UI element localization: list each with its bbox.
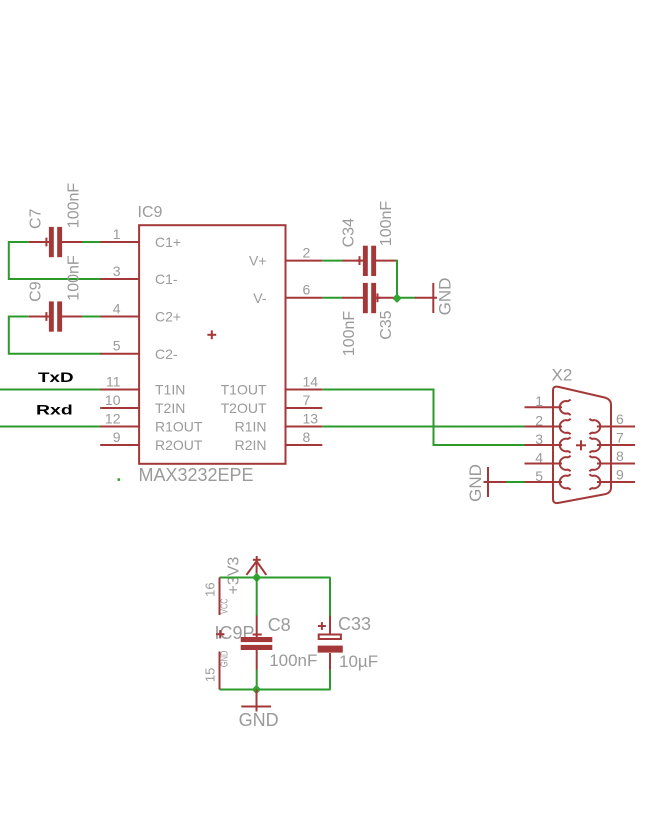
op-amp U1 : IC9 MAX3232EPE box bbox=[139, 225, 285, 464]
pin 4 C2+ bbox=[100, 300, 181, 324]
svg-text:100nF: 100nF bbox=[66, 183, 83, 229]
pin X2-7 bbox=[589, 430, 635, 453]
svg-text:R1OUT: R1OUT bbox=[155, 419, 203, 435]
op-amp U1 power gate IC9P pin 16 VCC bbox=[203, 578, 231, 616]
svg-text:TxD: TxD bbox=[38, 369, 74, 385]
pin 9 R2OUT bbox=[100, 429, 203, 453]
svg-text:10: 10 bbox=[105, 392, 121, 408]
pin X2-9 bbox=[589, 467, 635, 490]
pin 11 T1IN bbox=[100, 373, 185, 397]
svg-text:C8: C8 bbox=[268, 615, 291, 635]
svg-text:GND: GND bbox=[239, 710, 279, 730]
svg-text:R2OUT: R2OUT bbox=[155, 437, 203, 453]
wire pin 6 to C35 bbox=[322, 297, 342, 299]
svg-text:9: 9 bbox=[113, 429, 121, 445]
wire bottom GND rail bbox=[220, 689, 331, 691]
ground GND bottom bbox=[239, 690, 279, 731]
svg-text:4: 4 bbox=[535, 449, 543, 465]
pin 5 C2- bbox=[100, 338, 178, 362]
svg-text:8: 8 bbox=[616, 448, 624, 464]
node IC9 origin cross bbox=[207, 330, 216, 339]
pin X2-4 bbox=[525, 449, 571, 471]
pin X2-1 bbox=[525, 393, 571, 415]
node junction top rail bbox=[252, 573, 261, 582]
node X2 origin cross bbox=[576, 440, 586, 450]
svg-text:11: 11 bbox=[106, 373, 121, 389]
svg-text:100nF: 100nF bbox=[66, 255, 83, 301]
svg-text:6: 6 bbox=[303, 282, 311, 298]
wire TxD net to pin 11 bbox=[0, 389, 101, 391]
svg-text:5: 5 bbox=[113, 338, 121, 354]
pin X2-2 bbox=[525, 412, 571, 434]
svg-text:Rxd: Rxd bbox=[36, 402, 73, 418]
svg-text:1: 1 bbox=[113, 226, 121, 242]
pin 8 R2IN bbox=[235, 429, 323, 453]
svg-text:VCC: VCC bbox=[220, 598, 231, 614]
svg-text:IC9: IC9 bbox=[138, 204, 163, 221]
pin 1 C1+ bbox=[100, 226, 181, 250]
wire C7 right to pin 1 bbox=[82, 241, 101, 243]
pin X2-8 bbox=[589, 448, 635, 471]
pin 6 V- bbox=[253, 282, 322, 306]
svg-text:13: 13 bbox=[303, 410, 319, 426]
svg-text:GND: GND bbox=[436, 278, 455, 316]
wire C33 branch top bbox=[329, 578, 331, 617]
node junction bottom rail bbox=[252, 685, 261, 694]
pin 2 V+ bbox=[249, 244, 322, 268]
svg-text:GND: GND bbox=[220, 651, 231, 668]
svg-text:100nF: 100nF bbox=[269, 651, 317, 670]
pin X2-6 bbox=[589, 411, 635, 434]
svg-text:1: 1 bbox=[535, 393, 543, 409]
svg-text:MAX3232EPE: MAX3232EPE bbox=[139, 465, 254, 485]
capacitor C7 bbox=[28, 183, 83, 258]
wire C7 loop pin1 to pin3 bbox=[9, 242, 101, 279]
svg-text:R2IN: R2IN bbox=[235, 437, 267, 453]
svg-text:16: 16 bbox=[203, 582, 218, 596]
wire top +3V3 rail bbox=[220, 577, 331, 579]
node stray green dot bbox=[118, 478, 121, 481]
svg-text:12: 12 bbox=[105, 410, 121, 426]
node IC9P origin cross bbox=[216, 630, 224, 638]
svg-text:T2IN: T2IN bbox=[155, 400, 185, 416]
svg-text:10µF: 10µF bbox=[339, 652, 378, 671]
wire pin 14 to X2 pin 3 bbox=[322, 390, 524, 446]
svg-text:3: 3 bbox=[535, 431, 543, 447]
svg-text:C2-: C2- bbox=[155, 346, 178, 362]
svg-text:100nF: 100nF bbox=[378, 201, 395, 247]
node Rxd label bbox=[36, 402, 73, 418]
svg-text:6: 6 bbox=[616, 411, 624, 427]
pin X2-5 bbox=[525, 468, 571, 490]
node TxD label bbox=[38, 369, 74, 385]
svg-text:7: 7 bbox=[616, 430, 624, 446]
svg-text:14: 14 bbox=[303, 373, 319, 389]
svg-text:5: 5 bbox=[535, 468, 543, 484]
svg-text:2: 2 bbox=[303, 244, 311, 260]
wire Rxd net to pin 12 bbox=[0, 426, 101, 428]
svg-text:15: 15 bbox=[203, 668, 218, 682]
wire C9 loop pin4 to pin5 bbox=[9, 317, 101, 354]
svg-text:C7: C7 bbox=[28, 208, 45, 229]
svg-text:T1OUT: T1OUT bbox=[221, 382, 267, 398]
pin 13 R1IN bbox=[235, 410, 323, 434]
svg-text:V+: V+ bbox=[249, 253, 267, 269]
capacitor C33 bbox=[318, 614, 378, 671]
wire pin 13 to X2 pin 2 bbox=[322, 426, 524, 428]
capacitor C9 bbox=[28, 255, 83, 332]
svg-text:C35: C35 bbox=[378, 310, 395, 339]
pin 12 R1OUT bbox=[100, 410, 203, 434]
pin 3 C1- bbox=[100, 263, 178, 287]
svg-text:T2OUT: T2OUT bbox=[221, 400, 267, 416]
svg-text:C9: C9 bbox=[28, 281, 45, 302]
capacitor C35 bbox=[341, 283, 395, 356]
svg-text:2: 2 bbox=[535, 412, 543, 428]
pin X2-3 bbox=[525, 431, 571, 453]
svg-text:C1-: C1- bbox=[155, 271, 178, 287]
capacitor C8 bbox=[241, 615, 318, 670]
wire C9 right to pin 4 bbox=[82, 316, 101, 318]
op-amp U1 power gate IC9P pin 15 GND bbox=[203, 651, 231, 690]
svg-text:3: 3 bbox=[113, 263, 121, 279]
wire X2 pin 5 to GND bbox=[506, 481, 526, 483]
pin 10 T2IN bbox=[100, 392, 185, 416]
wire junction to GND pin bbox=[397, 297, 416, 299]
svg-text:100nF: 100nF bbox=[341, 311, 358, 357]
wire C8 branch top bbox=[256, 578, 258, 617]
connector X2 DB9 shell bbox=[553, 387, 611, 503]
svg-text:8: 8 bbox=[303, 429, 311, 445]
svg-text:X2: X2 bbox=[552, 365, 573, 384]
capacitor C34 bbox=[341, 201, 396, 276]
ground GND near C35 bbox=[415, 278, 455, 316]
svg-text:4: 4 bbox=[113, 300, 121, 316]
node junction V- net bbox=[392, 294, 401, 303]
wire C8 branch bottom bbox=[256, 670, 258, 690]
svg-text:V-: V- bbox=[253, 290, 267, 306]
svg-text:7: 7 bbox=[303, 392, 311, 408]
svg-text:+3V3: +3V3 bbox=[226, 557, 243, 595]
svg-text:R1IN: R1IN bbox=[235, 419, 267, 435]
svg-text:C1+: C1+ bbox=[155, 234, 181, 250]
svg-text:9: 9 bbox=[616, 467, 624, 483]
supply +3V3 symbol bbox=[226, 556, 267, 595]
wire C33 branch bottom bbox=[329, 670, 331, 690]
pin 14 T1OUT bbox=[221, 373, 323, 397]
svg-text:C33: C33 bbox=[338, 614, 371, 634]
svg-text:GND: GND bbox=[466, 464, 485, 502]
pin 7 T2OUT bbox=[221, 392, 323, 416]
svg-text:C34: C34 bbox=[341, 218, 358, 247]
svg-text:C2+: C2+ bbox=[155, 309, 181, 325]
svg-text:T1IN: T1IN bbox=[155, 382, 185, 398]
wire C34 right elbow down to junction bbox=[395, 261, 397, 299]
wire pin 2 to C34 bbox=[322, 260, 342, 262]
ground GND at X2 pin 5 bbox=[466, 464, 506, 502]
